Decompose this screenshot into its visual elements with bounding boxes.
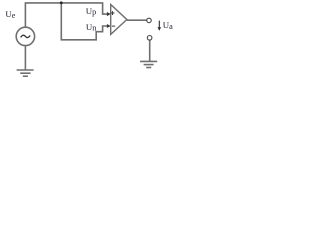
svg-text:Un: Un — [86, 22, 96, 33]
svg-text:Ue: Ue — [5, 9, 15, 20]
svg-text:Up: Up — [86, 6, 96, 17]
svg-text:Ua: Ua — [163, 20, 173, 31]
